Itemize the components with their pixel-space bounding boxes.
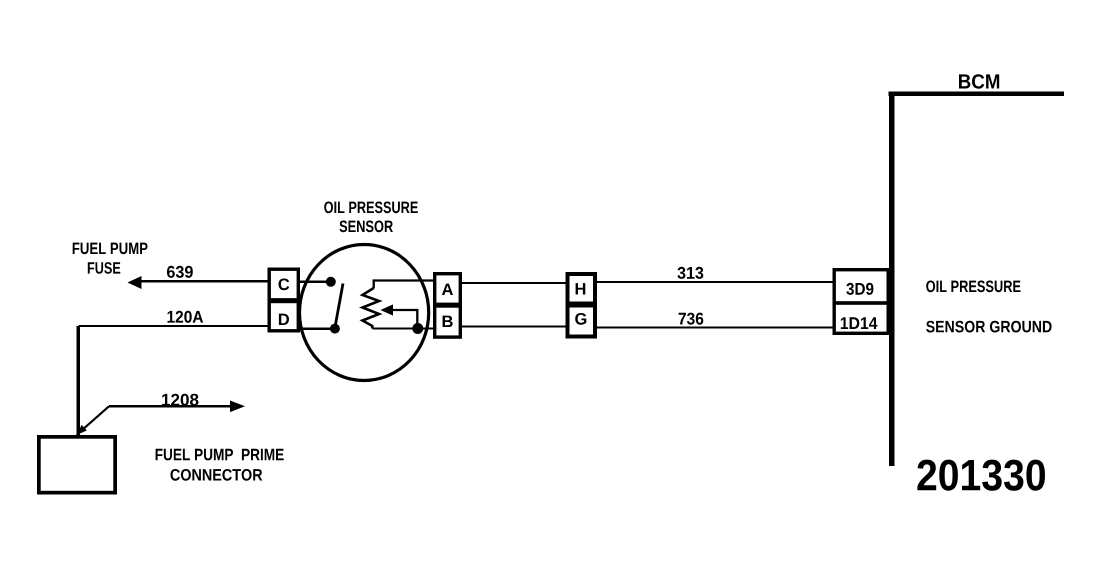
- wire 1208 with right arrowhead: [109, 401, 245, 413]
- wire A to H: [462, 282, 566, 284]
- wire 639 with arrowhead toward fuel pump fuse: [128, 276, 268, 289]
- label 313: [678, 267, 704, 279]
- label 736: [679, 313, 704, 325]
- label OIL PRESSURE (BCM pin function): [926, 281, 1020, 293]
- connector box D: [269, 302, 298, 331]
- connector box B: [435, 306, 461, 337]
- pin label H: [576, 283, 586, 294]
- BCM vertical boundary line: [889, 92, 895, 467]
- label 120A: [168, 311, 204, 323]
- BCM connector box 1D14: [834, 303, 888, 333]
- pointer diagonal with arrowhead to connector: [76, 406, 109, 435]
- wiper wire to junction: [392, 310, 417, 329]
- pin label B: [443, 316, 453, 327]
- pin label G: [575, 313, 586, 325]
- pin label D: [279, 314, 289, 325]
- pin label 1D14: [841, 317, 878, 329]
- wire 313 from H to BCM: [597, 281, 833, 283]
- resistor element: [363, 288, 380, 329]
- wire switch to D: [299, 328, 335, 330]
- pin label C: [279, 279, 290, 291]
- label 639: [167, 266, 193, 278]
- wire sensor top rail to A: [374, 281, 433, 289]
- wire C to switch contact: [299, 281, 331, 283]
- wire 736 from G to BCM: [597, 326, 833, 328]
- wire 120A vertical drop: [77, 326, 80, 436]
- BCM top boundary line: [889, 92, 1065, 97]
- switch arm: [335, 284, 343, 326]
- label OIL PRESSURE SENSOR: [324, 202, 418, 233]
- connector box G: [568, 306, 596, 337]
- label SENSOR GROUND (BCM pin function): [926, 321, 1052, 333]
- label FUEL PUMP FUSE: [73, 243, 148, 274]
- pin label 3D9: [846, 283, 873, 295]
- connector box A: [435, 274, 461, 305]
- switch lower contact dot: [330, 324, 340, 334]
- pin label A: [442, 284, 453, 295]
- label BCM: [959, 74, 999, 89]
- connector box H: [568, 274, 596, 304]
- diagram number 201330: [917, 460, 1045, 491]
- wire resistor bottom to B: [372, 327, 433, 329]
- label 1208: [162, 394, 198, 406]
- connector box C: [269, 269, 298, 300]
- oil pressure sensor circle: [300, 245, 429, 381]
- label FUEL PUMP PRIME CONNECTOR: [156, 449, 284, 481]
- fuel pump prime connector box: [39, 437, 115, 493]
- potentiometer wiper arrowhead: [381, 304, 394, 315]
- switch upper contact dot: [326, 277, 336, 287]
- junction dot at B: [412, 323, 423, 334]
- wire 120A horizontal: [78, 325, 267, 327]
- wire B to G: [462, 325, 566, 327]
- BCM connector box 3D9: [834, 270, 888, 303]
